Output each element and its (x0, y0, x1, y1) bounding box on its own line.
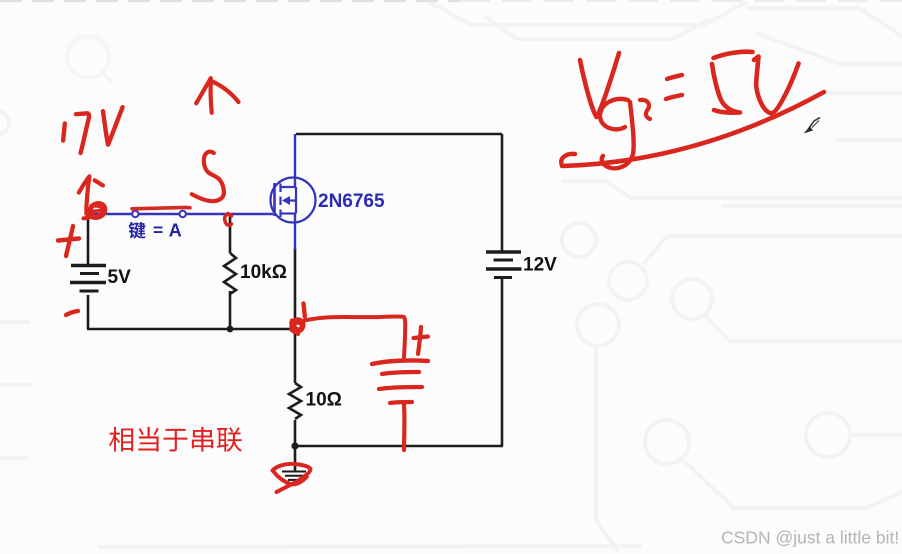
junction node ground rail (291, 442, 298, 449)
wire bottom rail (295, 445, 503, 448)
annotation battery bottom lead (402, 404, 407, 450)
mouse cursor (804, 118, 821, 134)
transistor Q1 arrow (282, 196, 290, 205)
wire node to 10ohm (294, 329, 297, 383)
annotation underline swoosh (562, 92, 824, 166)
annotation g (192, 152, 224, 202)
wire 5V top vertical (87, 214, 90, 264)
wire 10k top (229, 214, 232, 253)
wire 10ohm to ground node (294, 420, 297, 446)
wire 5V bottom vertical (87, 295, 90, 329)
annotation Vgs g (600, 99, 634, 168)
annotation battery plate1 (372, 360, 428, 364)
svg-text:10kΩ: 10kΩ (240, 262, 287, 283)
annotation 5 top bar (714, 52, 753, 58)
wire 10k bottom (229, 291, 232, 329)
annotation arrow at node A (86, 177, 89, 215)
battery B1 5V (70, 266, 106, 292)
annotation 17V: V (103, 107, 123, 144)
annotation underline hook (561, 154, 575, 165)
junction node 10k bottom (227, 326, 234, 333)
annotation 17V: 7 (76, 113, 89, 153)
annotation plus left (66, 226, 73, 256)
svg-text:2N6765: 2N6765 (318, 191, 385, 212)
annotation Vgs s (640, 100, 650, 119)
wire mid rail (87, 328, 295, 331)
annotation V2 (754, 57, 799, 114)
switch S1 (132, 211, 186, 217)
annotation battery plate3 (379, 387, 422, 389)
svg-text:=: = (153, 220, 163, 240)
annotation 5 body (712, 64, 740, 113)
junction node mid (292, 326, 298, 332)
svg-text:10Ω: 10Ω (306, 390, 342, 411)
annotation battery plate4 (390, 402, 412, 403)
svg-text:A: A (169, 220, 182, 240)
annotation plus right (418, 327, 421, 354)
annotation minus left (66, 311, 78, 315)
wire top rail drain to 12V (296, 133, 502, 136)
svg-text:CSDN @just a little bit!: CSDN @just a little bit! (721, 528, 899, 548)
annotation ground scribble (273, 464, 311, 492)
annotation red wire to battery (302, 316, 405, 357)
svg-text:12V: 12V (523, 255, 557, 276)
annotation equals (666, 75, 682, 99)
annotation scribble knot mid node (291, 319, 303, 334)
switch S1 lever (red) (132, 207, 190, 208)
annotation up arrow (196, 78, 211, 103)
top edge artifact (0, 0, 460, 2)
annotation battery plate2 (382, 372, 419, 374)
resistor R1 10kOhm (224, 253, 236, 294)
wire source to node (294, 248, 297, 329)
wire right side 12V top (501, 134, 504, 251)
annotation Vgs V (580, 53, 619, 117)
annotation 17V: 1 tick (63, 124, 65, 141)
transistor Q1 2N6765 (271, 134, 316, 250)
resistor R2 10Ohm (289, 383, 301, 419)
ground (282, 446, 306, 480)
label switch: jian = A (128, 220, 181, 240)
wire gate blue (91, 213, 273, 215)
annotation hook at 10k node (225, 215, 232, 226)
svg-text:5V: 5V (108, 267, 132, 288)
wire right side 12V bottom (501, 278, 504, 446)
battery B2 12V (486, 252, 522, 278)
annotation scribble knot at node A (88, 203, 105, 218)
annotation tick above mid node (304, 304, 305, 317)
annotation text xiangdangyu chuanlian (109, 427, 242, 452)
red annotations (58, 52, 824, 492)
